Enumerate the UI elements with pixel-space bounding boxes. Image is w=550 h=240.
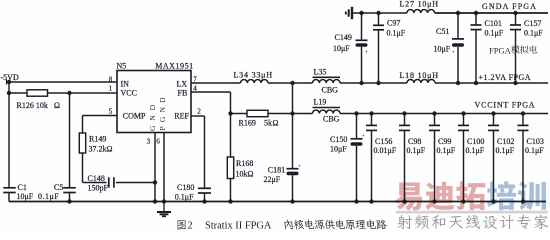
wire R169 to L19	[268, 113, 313, 115]
junction C180 ground	[202, 199, 206, 203]
wire VCCINT to C100	[463, 114, 465, 126]
svg-text:0.01μF: 0.01μF	[374, 146, 397, 155]
svg-text:0.1μF: 0.1μF	[466, 146, 485, 155]
junction node A link	[290, 111, 294, 115]
wire to C148	[83, 182, 107, 184]
svg-text:+: +	[298, 163, 302, 170]
junction C51 top	[456, 11, 460, 15]
junction C99 top	[432, 111, 436, 115]
junction C5 branch	[67, 91, 71, 95]
wire node A to FB net	[292, 83, 294, 114]
svg-text:C149: C149	[335, 33, 352, 42]
wire end tick	[6, 80, 8, 85]
wire node to C181	[292, 114, 294, 169]
junction C148/GND vertical	[153, 180, 157, 184]
svg-text:+1.2VA FPGA: +1.2VA FPGA	[479, 73, 532, 82]
junction -5VD/C1 branch	[7, 80, 11, 84]
svg-text:C1: C1	[18, 183, 27, 192]
wire VCCINT to C103	[522, 114, 524, 126]
wire C1 to ground rail	[8, 193, 10, 202]
junction C156 ground	[369, 199, 373, 203]
junction node A	[290, 81, 294, 85]
svg-text:1: 1	[109, 84, 113, 92]
wire node A to L35	[293, 82, 313, 84]
svg-text:R126 10k: R126 10k	[17, 101, 48, 110]
svg-text:10μF: 10μF	[333, 44, 350, 53]
wire C148 to GND pin net	[116, 182, 155, 184]
svg-text:0.1μF: 0.1μF	[524, 28, 543, 37]
svg-text:2: 2	[188, 221, 193, 232]
ferrite bead L19 CBG	[313, 107, 341, 109]
svg-text:+: +	[362, 133, 366, 140]
capacitor C157 0.1uF	[510, 24, 521, 26]
svg-text:C101: C101	[485, 19, 502, 28]
capacitor C103	[518, 124, 529, 126]
svg-text:C5: C5	[54, 183, 63, 192]
wire FB down	[230, 92, 232, 114]
svg-text:0.1μF: 0.1μF	[437, 146, 456, 155]
wire GNDA to C97	[378, 13, 380, 25]
junction C181 ground	[290, 199, 294, 203]
junction FB/R169/R168	[228, 111, 232, 115]
junction C101 bottom	[474, 81, 478, 85]
svg-text:0.1μF: 0.1μF	[525, 146, 544, 155]
svg-text:C97: C97	[387, 19, 400, 28]
svg-text:GNDA FPGA: GNDA FPGA	[482, 2, 537, 11]
wire +1.2VA FPGA rail	[435, 82, 548, 84]
capacitor C97 0.1uF	[373, 24, 384, 26]
wire R149 to C148	[82, 153, 84, 183]
svg-text:10μF: 10μF	[17, 192, 34, 201]
junction C103 ground	[521, 199, 525, 203]
svg-text:7: 7	[193, 75, 197, 83]
svg-text:N5: N5	[117, 61, 127, 70]
wire GNDA to C51	[457, 13, 459, 38]
wire FB pin 4	[191, 91, 231, 93]
wire C156 to ground rail	[371, 130, 373, 201]
svg-text:L19: L19	[314, 97, 327, 106]
inductor L27 10uH	[407, 10, 435, 13]
wire REF pin 2	[191, 115, 205, 117]
svg-text:0.1μF: 0.1μF	[175, 192, 194, 201]
svg-text:C102: C102	[497, 137, 514, 146]
resistor R168 10k	[227, 157, 233, 179]
junction C102 top	[491, 111, 495, 115]
junction C99 ground	[432, 199, 436, 203]
wire GNDA rail left	[352, 12, 407, 14]
wire C101 to +1.2VA rail	[475, 30, 477, 83]
capacitor C1	[3, 187, 16, 189]
watermark underline	[396, 211, 548, 214]
wire C100 to ground rail	[463, 130, 465, 201]
capacitor C102	[488, 124, 499, 126]
junction C98 ground	[402, 199, 406, 203]
wire ground rail	[9, 201, 546, 203]
svg-text:GND: GND	[148, 104, 157, 131]
svg-text:L18 10μH: L18 10μH	[400, 71, 439, 80]
wire PGND pin 6 to ground rail	[163, 133, 165, 202]
capacitor C181 22uF polarized	[287, 168, 299, 170]
ground symbol GNDA (left-pointing)	[351, 7, 353, 19]
wire C103 to ground rail	[522, 130, 524, 201]
wire GNDA to C101	[475, 13, 477, 25]
caption 图2 Stratix II FPGA core power schematic	[177, 219, 387, 231]
svg-text:3: 3	[147, 138, 151, 146]
svg-text:C150: C150	[330, 135, 347, 144]
svg-text:C51: C51	[436, 27, 449, 36]
capacitor C156	[366, 124, 377, 126]
svg-text:2: 2	[197, 107, 201, 115]
svg-text:C181: C181	[268, 166, 285, 175]
resistor R149	[79, 133, 85, 153]
svg-text:Ω: Ω	[54, 101, 60, 110]
svg-text:6: 6	[156, 138, 160, 146]
junction R168 ground	[228, 199, 232, 203]
capacitor C149 10uF polarized	[356, 39, 368, 41]
svg-text:C157: C157	[524, 19, 541, 28]
wire to R169	[231, 113, 248, 115]
wire REF to C180	[204, 116, 206, 188]
ground symbol	[163, 202, 165, 212]
svg-text:Stratix II FPGA: Stratix II FPGA	[205, 221, 272, 232]
wire C149 to +1.2V line	[361, 47, 363, 83]
wire C180 to ground rail	[204, 193, 206, 202]
junction C157 top	[513, 11, 517, 15]
ferrite bead L35 CBG	[313, 76, 341, 78]
svg-text:IN: IN	[121, 79, 130, 88]
wire C181 to ground rail	[292, 175, 294, 201]
svg-text:C99: C99	[438, 137, 451, 146]
junction C149 top	[359, 11, 363, 15]
junction VCC branch	[7, 91, 11, 95]
junction C150 top	[354, 111, 358, 115]
wire C99 to ground rail	[434, 130, 436, 201]
capacitor C101 0.1uF	[471, 24, 482, 26]
op-amp U1 MAX1951 regulator body	[117, 71, 191, 133]
junction C97 bottom	[376, 81, 380, 85]
svg-text:CBG: CBG	[323, 115, 340, 124]
svg-text:Ω: Ω	[273, 119, 279, 128]
wire GND pin 3 to ground rail	[154, 133, 156, 202]
svg-text:REF: REF	[174, 112, 189, 121]
svg-text:MAX1951: MAX1951	[155, 61, 194, 70]
wire VCCINT to C102	[493, 114, 495, 126]
junction C97 top	[376, 11, 380, 15]
capacitor C5	[63, 187, 76, 189]
junction PGND rail	[162, 199, 166, 203]
capacitor C51 10uF polarized	[452, 38, 464, 40]
wire C5 to ground rail	[69, 193, 71, 202]
wire GNDA to C157	[515, 13, 517, 25]
watermark 易迪拓培训	[394, 181, 546, 210]
resistor R169 5k	[247, 110, 268, 116]
resistor R126	[27, 90, 48, 96]
wire R168 to ground rail	[230, 179, 232, 202]
svg-text:0.1μF: 0.1μF	[485, 28, 504, 37]
watermark slogan 射频和天线设计专家	[397, 215, 548, 230]
wire GNDA to C149	[361, 13, 363, 40]
junction C157 bottom	[513, 81, 517, 85]
svg-text:5: 5	[109, 107, 113, 115]
svg-text:0.1μF: 0.1μF	[387, 28, 406, 37]
svg-text:10μF: 10μF	[434, 44, 451, 53]
wire VCCINT FPGA rail	[340, 113, 548, 115]
svg-text:R168: R168	[236, 159, 253, 168]
wire R126 to VCC pin 1	[48, 92, 118, 94]
svg-text:37.2kΩ: 37.2kΩ	[89, 145, 113, 154]
junction C103 top	[521, 111, 525, 115]
wire down to C1	[8, 93, 10, 187]
svg-text:C148: C148	[88, 174, 105, 183]
wire VCCINT to C156	[371, 114, 373, 126]
svg-text:CBG: CBG	[322, 85, 339, 94]
junction C5 ground	[67, 199, 71, 203]
wire VCCINT to C150	[356, 114, 358, 139]
wire to R126	[9, 92, 27, 94]
inductor L18 10uH	[407, 80, 435, 84]
svg-text:0.1μF: 0.1μF	[496, 146, 515, 155]
wire LX pin 7 to L34	[191, 82, 241, 84]
inductor L34 33uH	[241, 80, 269, 83]
capacitor C100	[458, 124, 469, 126]
capacitor C99	[429, 124, 440, 126]
svg-text:C98: C98	[408, 137, 421, 146]
svg-text:+: +	[365, 49, 369, 56]
wire VCCINT to C99	[434, 114, 436, 126]
junction C150 ground	[354, 199, 358, 203]
svg-text:+: +	[452, 49, 456, 56]
svg-text:R149: R149	[89, 135, 106, 144]
capacitor C98	[399, 124, 410, 126]
wire C51 to +1.2VA rail	[457, 47, 459, 83]
wire C102 to ground rail	[493, 130, 495, 201]
wire FB node to R168	[230, 114, 232, 158]
junction C100 top	[461, 111, 465, 115]
wire C97 to +1.2V line	[378, 30, 380, 83]
wire GNDA rail right	[435, 12, 549, 14]
svg-text:R169: R169	[239, 119, 256, 128]
svg-text:L27 10μH: L27 10μH	[400, 0, 439, 9]
wire L35 to L18	[340, 82, 407, 84]
capacitor C148	[108, 177, 110, 187]
svg-text:10μF: 10μF	[330, 145, 347, 154]
capacitor C150 10uF polarized	[351, 138, 363, 140]
wire -5VD rail to IN pin 8	[7, 81, 118, 83]
wire L34 to node A	[268, 82, 293, 84]
junction C149 bottom	[359, 81, 363, 85]
junction C102 ground	[491, 199, 495, 203]
svg-text:C180: C180	[177, 183, 194, 192]
svg-text:10kΩ: 10kΩ	[236, 170, 254, 179]
svg-text:LX: LX	[177, 79, 188, 88]
capacitor C180	[198, 187, 211, 189]
svg-text:C100: C100	[467, 137, 484, 146]
junction C98 top	[402, 111, 406, 115]
wire COMP pin 5	[83, 115, 118, 117]
junction C101 top	[474, 11, 478, 15]
wire -5VD to VCC branch	[8, 82, 10, 93]
svg-text:0.1μF: 0.1μF	[407, 146, 426, 155]
wire down to C5	[69, 93, 71, 187]
junction C100 ground	[461, 199, 465, 203]
svg-text:0.1μF: 0.1μF	[38, 192, 59, 201]
svg-text:L35: L35	[314, 68, 327, 77]
junction C156 top	[369, 111, 373, 115]
wire C98 to ground rail	[404, 130, 406, 201]
wire C157 to +1.2VA rail	[515, 30, 517, 83]
wire VCCINT to C98	[404, 114, 406, 126]
svg-text:22μF: 22μF	[264, 175, 281, 184]
svg-text:8: 8	[109, 75, 113, 83]
svg-text:FB: FB	[178, 89, 188, 98]
junction C51 bottom	[456, 81, 460, 85]
svg-text:4: 4	[193, 84, 197, 92]
svg-text:VCCINT FPGA: VCCINT FPGA	[475, 101, 536, 110]
svg-text:COMP: COMP	[123, 112, 146, 121]
junction GND rail	[153, 199, 157, 203]
svg-text:C103: C103	[527, 137, 544, 146]
svg-text:5k: 5k	[264, 119, 272, 128]
wire COMP to R149	[82, 116, 84, 134]
svg-text:L34 33μH: L34 33μH	[234, 71, 273, 80]
svg-text:C156: C156	[375, 137, 392, 146]
wire C150 to ground rail	[356, 146, 358, 202]
svg-text:VCC: VCC	[121, 89, 137, 98]
svg-text:150pF: 150pF	[88, 184, 109, 193]
svg-text:FPGA: FPGA	[489, 46, 512, 56]
